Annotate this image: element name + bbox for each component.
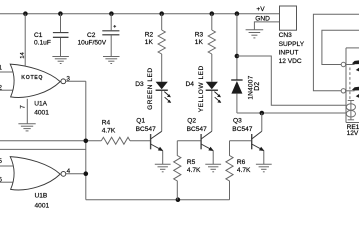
wire R2 to D3 — [161, 54, 163, 82]
svg-text:R2: R2 — [145, 32, 154, 39]
NOR gate U1B 4001 — [0, 157, 71, 210]
svg-text:BC547: BC547 — [232, 126, 252, 133]
svg-text:R3: R3 — [195, 32, 204, 39]
svg-text:INPUT: INPUT — [279, 49, 299, 56]
node junction D2 — [235, 11, 240, 16]
svg-text:14: 14 — [20, 52, 26, 59]
resistor R4 — [101, 120, 150, 145]
capacitor C2 (electrolytic) — [78, 14, 120, 57]
LED D4 (yellow) — [186, 65, 222, 112]
svg-text:R5: R5 — [187, 159, 196, 166]
svg-text:R6: R6 — [237, 159, 246, 166]
svg-text:C1: C1 — [34, 32, 43, 39]
wire bottom bus — [86, 199, 230, 201]
wire vertical bus from pin3 down — [85, 81, 87, 200]
node junction D2 branch — [235, 54, 240, 59]
wire pin 14 of U1A — [20, 14, 26, 66]
svg-text:1K: 1K — [145, 39, 154, 46]
ground C1 — [52, 57, 69, 64]
node junction pin4 — [84, 171, 89, 176]
relay RE1 — [341, 48, 359, 137]
wire D2 anode / Q3 collector to relay coil bottom — [237, 112, 347, 114]
svg-text:7: 7 — [20, 105, 27, 109]
svg-text:CN3: CN3 — [279, 32, 293, 39]
ground C2 — [103, 57, 120, 64]
svg-text:D4: D4 — [186, 81, 195, 88]
svg-text:YELLOW LED: YELLOW LED — [198, 65, 205, 112]
svg-text:U1A: U1A — [34, 101, 47, 108]
wire D4 to Q2 collector — [211, 91, 213, 132]
svg-text:GREEN LED: GREEN LED — [147, 67, 154, 110]
node junction Q3 collector — [260, 111, 265, 116]
node junction C2 — [109, 11, 114, 16]
node junction C1 — [58, 11, 63, 16]
svg-text:10uF/50V: 10uF/50V — [78, 40, 107, 47]
wire branch to relay coil top — [237, 56, 347, 105]
ground Q1 emitter — [155, 164, 171, 172]
svg-text:Q1: Q1 — [136, 118, 145, 125]
svg-text:C2: C2 — [87, 32, 96, 39]
svg-text:KOTEQ: KOTEQ — [21, 75, 43, 81]
svg-text:R4: R4 — [102, 120, 111, 127]
wire U1A pin3 output — [66, 80, 86, 82]
svg-text:4001: 4001 — [35, 202, 50, 209]
wire A: input to R4 from left — [0, 140, 101, 142]
node junction pin14 — [23, 11, 28, 16]
capacitor C1 — [34, 14, 69, 57]
wire relay contact NO loop (middle) — [322, 30, 359, 64]
LED D3 (green) — [135, 67, 171, 110]
transistor Q2 BC547 — [187, 118, 214, 165]
wire U1B pin4 output — [66, 173, 86, 175]
wire B from left edge — [0, 148, 86, 150]
node junction R5 bottom — [176, 197, 181, 202]
wire +V branch to D2 — [236, 14, 238, 80]
svg-text:4.7K: 4.7K — [237, 167, 251, 174]
diode D2 1N4007 — [231, 75, 261, 113]
resistor R5 — [174, 141, 201, 200]
wire Q3 base — [230, 140, 252, 142]
svg-text:Q2: Q2 — [187, 118, 196, 125]
svg-text:4.7K: 4.7K — [102, 127, 116, 134]
ground Q2 emitter — [205, 164, 221, 172]
node junction R3 — [210, 11, 215, 16]
svg-text:GND: GND — [255, 15, 270, 22]
svg-text:D2: D2 — [254, 82, 261, 91]
wire relay contact NC loop (outer) — [313, 14, 359, 91]
svg-text:BC547: BC547 — [136, 126, 156, 133]
node junction wire A — [84, 139, 89, 144]
svg-text:Q3: Q3 — [233, 118, 242, 125]
connector CN3 — [279, 6, 305, 65]
svg-text:4.7K: 4.7K — [187, 167, 201, 174]
svg-text:SUPPLY: SUPPLY — [279, 41, 305, 48]
ground U1A pin7 — [18, 124, 35, 131]
wire Q2 base — [177, 140, 200, 142]
svg-text:4001: 4001 — [34, 109, 49, 116]
svg-text:+V: +V — [256, 6, 265, 13]
wire pin 7 of U1A to ground — [20, 99, 28, 124]
wire D3 to Q1 collector — [161, 91, 163, 132]
svg-text:12 VDC: 12 VDC — [279, 58, 302, 65]
transistor Q1 BC547 — [136, 118, 164, 165]
resistor R3 — [195, 14, 216, 54]
transistor Q3 BC547 — [232, 113, 264, 164]
node junction R2 — [159, 11, 164, 16]
wire +V top rail — [0, 13, 280, 15]
svg-text:12V: 12V — [347, 130, 359, 137]
svg-text:1K: 1K — [195, 39, 204, 46]
resistor R2 — [145, 14, 166, 54]
svg-text:0.1uF: 0.1uF — [34, 40, 51, 47]
NOR gate U1A 4001 — [0, 64, 70, 116]
wire R3 to D4 — [211, 54, 213, 82]
svg-text:U1B: U1B — [35, 192, 48, 199]
svg-text:BC547: BC547 — [187, 126, 207, 133]
svg-text:D3: D3 — [135, 81, 144, 88]
ground near CN3 — [246, 6, 280, 38]
ground Q3 emitter — [256, 164, 272, 172]
resistor R6 — [226, 141, 251, 200]
